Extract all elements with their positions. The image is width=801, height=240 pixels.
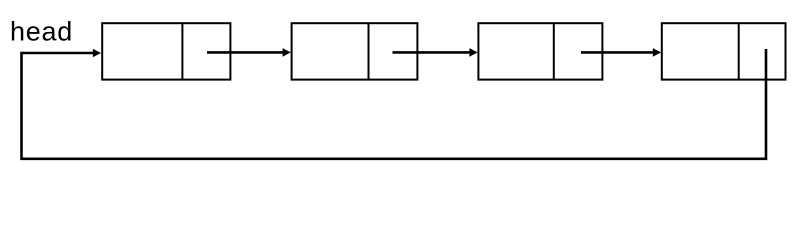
node box 3	[478, 23, 602, 79]
node box 4	[662, 23, 786, 79]
wire arrow node1 to node2	[207, 48, 291, 57]
svg-text:head: head	[10, 16, 73, 46]
wire loop node4 back to node1 (head pointer)	[22, 49, 767, 159]
node box 2	[292, 23, 418, 79]
wire arrow node2 to node3	[393, 48, 478, 57]
node box 1	[102, 23, 230, 79]
wire arrow node3 to node4	[581, 48, 661, 57]
arrowhead into node 1	[93, 49, 101, 58]
